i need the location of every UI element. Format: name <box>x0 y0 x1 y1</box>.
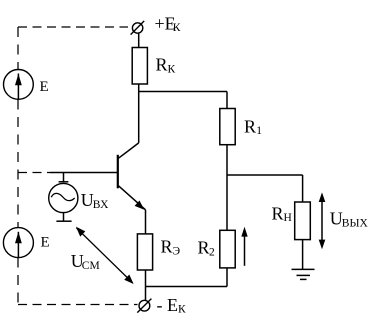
label Uvyh <box>330 209 369 230</box>
svg-text:E: E <box>40 79 49 95</box>
source Uvx stub bottom <box>63 212 65 221</box>
svg-text:ВХ: ВХ <box>93 199 109 211</box>
svg-text:СМ: СМ <box>82 260 100 272</box>
arrow Usm <box>76 227 134 284</box>
svg-text:R: R <box>198 238 210 258</box>
label Uvx <box>81 190 109 211</box>
svg-text:ВЫХ: ВЫХ <box>342 218 369 230</box>
svg-text:К: К <box>173 22 181 34</box>
svg-text:R: R <box>156 55 168 75</box>
resistor R2 <box>220 230 235 268</box>
transistor emitter lead <box>119 186 146 210</box>
svg-text:R: R <box>272 203 284 223</box>
dashed box left wire upper <box>17 27 19 70</box>
svg-text:Э: Э <box>173 246 181 258</box>
resistor Rk <box>132 48 147 85</box>
resistor Rn <box>295 202 311 240</box>
wire branch to R1 horizontal <box>139 91 227 93</box>
arrow beside R2 <box>241 227 247 266</box>
label -Ek <box>157 295 187 316</box>
terminal -Ek <box>137 299 151 313</box>
label R2 <box>198 238 216 259</box>
dashed box left wire middle <box>17 100 19 228</box>
ground <box>292 269 315 279</box>
svg-text:2: 2 <box>209 246 215 258</box>
svg-text:R: R <box>244 117 256 137</box>
source Uvx top bar <box>59 181 69 183</box>
source Uvx stub top <box>63 173 65 182</box>
svg-text:Н: Н <box>284 212 292 224</box>
wire to Rn vertical <box>302 175 304 202</box>
source Uvx circle <box>49 183 78 212</box>
label R1 <box>244 117 262 138</box>
source Uvx sine <box>51 193 74 200</box>
wire to Rn horizontal <box>227 174 303 176</box>
wire Rn to ground <box>302 240 304 270</box>
svg-text:1: 1 <box>256 125 262 137</box>
label +Ek <box>155 13 181 34</box>
svg-text:- Е: - Е <box>157 295 179 315</box>
dashed base branch wire <box>18 172 50 174</box>
wire base <box>50 172 117 174</box>
svg-text:E: E <box>41 235 50 251</box>
label Rn <box>272 203 292 224</box>
label Usm <box>71 251 100 272</box>
svg-text:К: К <box>168 64 176 76</box>
wire bottom horizontal <box>146 286 228 288</box>
wire emitter to Re <box>145 210 147 234</box>
resistor Re <box>137 234 152 270</box>
wire R2 down <box>226 268 228 287</box>
current source E1 <box>4 70 34 100</box>
current source E2 <box>3 228 33 258</box>
wire Re to terminal <box>145 270 147 300</box>
transistor VT base bar <box>117 155 119 189</box>
dashed box left wire lower <box>17 258 19 305</box>
wire R1 to R2 <box>226 145 228 231</box>
resistor R1 <box>220 109 235 145</box>
terminal +Ek <box>131 21 145 35</box>
wire Rk to collector <box>138 84 140 143</box>
arrow Uvyh <box>319 192 326 249</box>
transistor collector lead <box>119 143 139 158</box>
dashed box bottom wire <box>18 304 138 306</box>
svg-text:R: R <box>161 237 173 257</box>
label Rk <box>156 55 176 76</box>
dashed box top wire <box>18 26 128 28</box>
transistor emitter arrowhead <box>135 201 145 210</box>
label Re <box>161 237 181 258</box>
svg-text:К: К <box>178 304 186 316</box>
source Uvx bottom bar <box>56 220 71 222</box>
wire terminal to Rk <box>138 33 140 47</box>
wire branch to R1 vertical <box>226 92 228 109</box>
